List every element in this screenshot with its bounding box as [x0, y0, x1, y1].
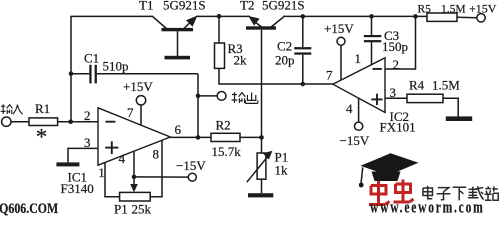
svg-text:6: 6	[175, 122, 182, 137]
node C2 top junction	[301, 14, 306, 19]
wire left vertical node-IN	[70, 16, 72, 122]
svg-text:C2: C2	[277, 39, 292, 54]
svg-text:1: 1	[98, 165, 105, 180]
wire T2 base vertical	[261, 30, 263, 138]
terminal input	[2, 117, 11, 126]
terminal +15V right	[477, 14, 485, 22]
node C3 top junction	[369, 14, 374, 19]
node output-R2 junction	[196, 135, 201, 140]
potentiometer P1 25k body	[120, 192, 151, 201]
svg-text:3: 3	[390, 85, 397, 100]
svg-text:2: 2	[393, 57, 400, 72]
svg-text:510p: 510p	[103, 59, 129, 74]
resistor R1	[29, 118, 58, 126]
svg-text:−15V: −15V	[340, 133, 370, 148]
svg-text:Q606.COM: Q606.COM	[0, 200, 59, 216]
svg-text:5G921S: 5G921S	[262, 0, 305, 13]
node C1 junction	[69, 71, 74, 76]
logo graduation cap	[359, 153, 419, 187]
wire R5 to +15V	[457, 16, 477, 18]
wire rail T1-T2	[196, 15, 250, 17]
label shuchu (output)	[232, 92, 258, 103]
wire R2 right	[240, 136, 262, 138]
wire pin8	[150, 140, 162, 196]
capacitor C3	[364, 16, 381, 65]
svg-text:15.7k: 15.7k	[212, 144, 242, 159]
svg-text:R4: R4	[409, 78, 425, 93]
logo chongchong (red characters)	[369, 180, 414, 205]
svg-text:150p: 150p	[382, 39, 408, 54]
svg-text:4: 4	[346, 101, 353, 116]
terminal +15V IC2 pin7	[337, 37, 345, 45]
wire input to R1	[11, 121, 29, 123]
svg-text:4: 4	[119, 151, 126, 166]
wire R3 bottom	[219, 68, 333, 84]
svg-text:25k: 25k	[132, 202, 152, 217]
terminal -15V IC2	[355, 122, 363, 130]
node pin4 junction	[132, 175, 137, 180]
transistor T1	[153, 16, 198, 57]
wire to output terminal	[198, 95, 217, 97]
plus sign IC1	[105, 141, 118, 154]
ground R4	[446, 116, 472, 121]
wire feedback vertical x198	[197, 74, 199, 138]
svg-text:+15V: +15V	[469, 2, 497, 16]
plus sign IC2	[371, 94, 382, 105]
node pin2 feedback junction	[413, 14, 418, 19]
svg-text:C1: C1	[84, 51, 99, 66]
node output junction	[196, 94, 201, 99]
svg-text:7: 7	[127, 105, 134, 120]
wire R3 top	[218, 16, 220, 43]
ground P1 1k	[248, 193, 273, 197]
capacitor C1	[71, 65, 198, 84]
wire IC2 pin4	[358, 98, 360, 123]
node C2 bottom junction	[301, 82, 306, 87]
resistor R5	[427, 13, 457, 21]
resistor R2	[211, 133, 240, 141]
svg-text:5G921S: 5G921S	[163, 0, 206, 13]
potentiometer P1 1k	[247, 138, 273, 194]
svg-text:7: 7	[326, 68, 333, 83]
wire pin3 to ground	[68, 148, 98, 162]
terminal +15V IC1 pin7	[136, 96, 145, 105]
node R3 top junction	[217, 14, 222, 19]
svg-text:20p: 20p	[275, 53, 295, 68]
wire R1 to pin2	[58, 121, 98, 123]
wire pin1	[105, 163, 120, 197]
resistor R3	[215, 43, 225, 68]
svg-text:1.5M: 1.5M	[432, 78, 460, 93]
svg-text:FX101: FX101	[380, 120, 416, 135]
svg-text:R2: R2	[216, 118, 231, 133]
wire pin4 to -15V	[134, 176, 188, 178]
logo text dianzi xiazaizhan	[423, 186, 498, 201]
resistor R4	[407, 94, 443, 102]
op-amp IC2	[333, 58, 385, 113]
wire pin7	[140, 105, 142, 126]
svg-text:*: *	[36, 125, 48, 150]
wire IC2 pin2 feedback	[385, 16, 416, 69]
svg-text:+15V: +15V	[123, 79, 153, 94]
wiper arrow P1 25k	[130, 177, 138, 192]
wire IC2 pin3	[385, 97, 407, 99]
wire R4 to ground	[443, 98, 458, 116]
svg-text:8: 8	[153, 147, 160, 162]
node R2-P1 junction	[259, 135, 264, 140]
svg-text:+15V: +15V	[324, 21, 354, 36]
ground IC1 pin3	[56, 162, 79, 166]
svg-text:P1: P1	[114, 202, 128, 217]
terminal -15V IC1	[188, 173, 196, 181]
transistor T2	[246, 16, 284, 30]
svg-text:R1: R1	[35, 101, 50, 116]
svg-text:3: 3	[84, 135, 91, 150]
node input junction	[68, 119, 73, 124]
svg-text:F3140: F3140	[61, 181, 94, 196]
ground under T1 base	[165, 56, 191, 60]
svg-text:1: 1	[355, 51, 362, 66]
svg-text:2: 2	[84, 108, 91, 123]
wire pin4	[133, 151, 135, 177]
svg-text:www.eeworm.com: www.eeworm.com	[370, 198, 485, 216]
minus sign IC2	[373, 68, 382, 70]
svg-text:1.5M: 1.5M	[441, 4, 466, 16]
wire IC2 pin7	[340, 45, 342, 80]
capacitor C2	[294, 16, 311, 84]
wire rail right	[283, 15, 427, 17]
label shuru (input)	[1, 104, 23, 114]
wire IC1 output	[170, 136, 211, 138]
op-amp IC1	[98, 108, 170, 165]
terminal output	[217, 92, 226, 101]
minus sign IC1	[106, 121, 116, 123]
svg-text:2k: 2k	[234, 53, 248, 68]
svg-text:T1: T1	[139, 0, 153, 13]
svg-text:−15V: −15V	[176, 158, 206, 173]
svg-text:T2: T2	[240, 0, 254, 13]
svg-text:1k: 1k	[275, 163, 289, 178]
svg-text:R5: R5	[418, 4, 432, 16]
wire top-left horizontal	[70, 15, 153, 17]
